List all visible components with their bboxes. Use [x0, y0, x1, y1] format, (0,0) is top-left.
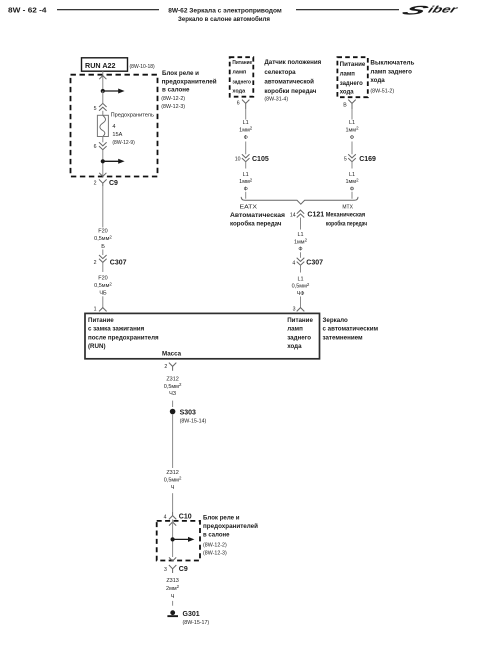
TRS feed dashed box (Питание ламп заднего хода - датчик) — [230, 57, 254, 96]
connector C307 — [94, 255, 127, 272]
svg-text:ламп: ламп — [287, 326, 303, 333]
wire to C307 — [102, 250, 104, 256]
wire into brace right — [351, 192, 353, 199]
wire to ground — [172, 601, 174, 606]
box text: backup lamp feed — [287, 317, 313, 350]
svg-text:14: 14 — [290, 213, 296, 219]
svg-text:C307: C307 — [306, 260, 323, 267]
svg-text:Блок реле и: Блок реле и — [162, 70, 199, 77]
svg-text:1: 1 — [94, 306, 97, 312]
svg-text:(8W-15-17): (8W-15-17) — [183, 620, 210, 626]
junction — [171, 537, 175, 541]
svg-text:F20: F20 — [98, 229, 107, 235]
svg-text:B: B — [343, 103, 347, 109]
wire pin5 to fuse — [102, 111, 104, 116]
merge brace — [241, 197, 358, 204]
svg-text:C105: C105 — [252, 156, 269, 163]
svg-text:(8W-15-14): (8W-15-14) — [180, 419, 207, 425]
svg-text:4: 4 — [164, 515, 167, 521]
splice S303 — [170, 409, 207, 425]
svg-text:ламп: ламп — [232, 70, 246, 76]
wire to C307 right — [300, 252, 302, 258]
label manual transmission — [326, 212, 368, 228]
svg-text:S303: S303 — [180, 409, 196, 416]
net label MTX — [342, 204, 353, 210]
wire fuse to pin 6 — [102, 137, 104, 143]
svg-text:Предохранитель: Предохранитель — [111, 113, 154, 119]
wire to mirror box pin 1 — [102, 296, 104, 307]
svg-text:Ч: Ч — [171, 594, 175, 600]
svg-text:Автоматическая: Автоматическая — [230, 212, 285, 219]
box label: mirror — [323, 317, 379, 341]
svg-text:хода: хода — [340, 90, 355, 96]
svg-text:Ч: Ч — [171, 485, 175, 491]
svg-text:селектора: селектора — [264, 69, 296, 76]
svg-text:с замка зажигания: с замка зажигания — [88, 326, 145, 333]
pin B fork below switch box — [343, 100, 355, 109]
svg-text:3: 3 — [293, 306, 296, 312]
svg-text:Зеркало в салоне автомобиля: Зеркало в салоне автомобиля — [178, 15, 270, 23]
svg-text:затемнением: затемнением — [323, 334, 363, 341]
svg-text:L1: L1 — [349, 120, 355, 126]
svg-text:C169: C169 — [359, 156, 376, 163]
svg-text:(8W-10-18): (8W-10-18) — [130, 64, 156, 70]
wire label L1 lower center — [292, 277, 310, 297]
svg-text:(8W-12-9): (8W-12-9) — [112, 140, 135, 146]
svg-text:L1: L1 — [349, 172, 355, 178]
TRS label (Датчик положения селектора) — [264, 59, 321, 103]
svg-text:F20: F20 — [98, 276, 107, 282]
branch arrow right — [103, 89, 125, 94]
net label EATX — [240, 205, 258, 211]
label automatic transmission — [230, 212, 285, 228]
pin 2 fork below mirror box — [164, 363, 176, 371]
svg-text:Питание: Питание — [287, 317, 313, 324]
arrow out of relay block lower (down) — [169, 557, 176, 561]
ground G301 — [167, 610, 209, 626]
svg-text:1мм2: 1мм2 — [294, 238, 308, 246]
svg-text:хода: хода — [370, 77, 385, 84]
svg-text:ламп заднего: ламп заднего — [370, 69, 412, 76]
svg-text:коробки передач: коробки передач — [264, 88, 316, 95]
wire through relay block lower — [172, 519, 174, 557]
wire into brace left — [245, 192, 247, 199]
svg-text:Питание: Питание — [88, 317, 114, 324]
svg-text:автоматической: автоматической — [264, 78, 314, 85]
svg-text:L1: L1 — [243, 120, 249, 126]
svg-text:2: 2 — [164, 364, 167, 370]
svg-text:хода: хода — [287, 343, 302, 350]
svg-text:0,5мм2: 0,5мм2 — [292, 282, 310, 290]
header title — [168, 8, 282, 23]
wire to S303 — [172, 401, 174, 407]
svg-text:L1: L1 — [297, 277, 303, 283]
svg-text:Ф: Ф — [350, 135, 354, 141]
svg-text:ЧФ: ЧФ — [297, 291, 305, 297]
svg-text:C307: C307 — [110, 259, 127, 266]
pin 5 — [94, 106, 97, 112]
svg-text:L1: L1 — [243, 172, 249, 178]
svg-text:Z312: Z312 — [166, 470, 179, 476]
svg-text:Ф: Ф — [244, 135, 248, 141]
wire switch to label — [351, 109, 353, 120]
header rule left — [57, 9, 159, 11]
branch arrow right — [173, 537, 195, 542]
branch arrow right — [103, 159, 125, 164]
svg-text:EATX: EATX — [240, 205, 258, 211]
relay block label — [161, 70, 216, 110]
wire to C169 — [351, 142, 353, 155]
svg-text:C9: C9 — [109, 180, 118, 187]
svg-text:Z313: Z313 — [166, 578, 179, 584]
box text: ignition feed — [88, 317, 159, 350]
svg-text:Датчик положения: Датчик положения — [264, 59, 321, 66]
svg-text:0,5мм2: 0,5мм2 — [164, 476, 182, 484]
svg-text:предохранителей: предохранителей — [162, 77, 217, 85]
wire RUN A22 to relay block — [102, 71, 104, 91]
svg-text:10: 10 — [235, 156, 241, 162]
svg-text:iber: iber — [426, 5, 460, 16]
wire label L1 left — [239, 120, 253, 141]
connector RUN A22 — [82, 58, 128, 71]
wire pin6 to junction — [102, 150, 104, 177]
svg-text:(8W-12-2): (8W-12-2) — [161, 96, 185, 102]
junction — [101, 159, 105, 163]
reference (8W-10-18) — [130, 64, 156, 70]
wire label Z312 lower — [164, 470, 182, 491]
relay block lower label — [203, 515, 258, 557]
wire to mirror box pin 3 — [300, 297, 302, 308]
backup lamp switch label — [370, 60, 414, 95]
svg-text:C121: C121 — [307, 212, 324, 219]
svg-text:заднего: заднего — [287, 334, 311, 341]
svg-text:2мм2: 2мм2 — [166, 584, 180, 592]
connector chevrons pin 5 — [99, 103, 107, 110]
wire to C105 — [245, 142, 247, 155]
svg-text:1мм2: 1мм2 — [239, 126, 253, 134]
svg-text:Масса: Масса — [162, 350, 182, 357]
svg-text:заднего: заднего — [340, 81, 363, 87]
svg-text:Механическая: Механическая — [326, 212, 366, 219]
wire S303 down — [172, 414, 174, 468]
relay block dashed box (Блок реле и предохранителей в салоне) — [71, 75, 158, 177]
svg-text:1мм2: 1мм2 — [345, 177, 359, 185]
wire label L1 center — [294, 232, 308, 253]
wire label L1 right lower — [345, 172, 359, 193]
backup lamp switch dashed box (Питание ламп заднего хода) — [337, 57, 367, 97]
svg-text:1мм2: 1мм2 — [345, 126, 359, 134]
svg-text:(8W-51-2): (8W-51-2) — [370, 89, 394, 95]
connector chevrons pin 6 — [99, 142, 107, 149]
fuse label — [111, 113, 154, 147]
svg-text:2: 2 — [94, 260, 97, 266]
svg-text:коробка передач: коробка передач — [326, 220, 368, 227]
mirror module box (Зеркало с автоматическим затемнением) — [85, 313, 320, 358]
relay block dashed box lower — [157, 521, 200, 561]
svg-text:Z312: Z312 — [166, 377, 179, 383]
svg-text:коробка передач: коробка передач — [230, 221, 282, 228]
connector C9 bottom — [164, 565, 188, 573]
connector C307 right — [292, 258, 323, 273]
svg-text:Б: Б — [101, 244, 105, 250]
fuse F4 — [97, 115, 108, 136]
svg-text:ЧЗ: ЧЗ — [169, 391, 177, 397]
svg-text:6: 6 — [237, 101, 240, 107]
svg-text:в салоне: в салоне — [162, 87, 190, 94]
header rule right — [296, 9, 399, 11]
arrow out of relay block (down) — [99, 173, 106, 177]
pin 1 fork into box — [94, 306, 107, 312]
pin 6 fork below TRS box — [237, 100, 250, 109]
wire junction to pin 5 — [102, 91, 104, 103]
svg-text:Ф: Ф — [298, 247, 302, 253]
svg-text:RUN A22: RUN A22 — [85, 61, 116, 70]
svg-text:(8W-12-3): (8W-12-3) — [161, 104, 185, 110]
connector C121 — [290, 210, 324, 229]
svg-text:в салоне: в салоне — [203, 532, 230, 539]
svg-text:с автоматическим: с автоматическим — [323, 326, 379, 333]
svg-text:4: 4 — [292, 261, 295, 267]
pin 6 — [94, 144, 97, 150]
svg-text:Блок реле и: Блок реле и — [203, 515, 240, 522]
svg-text:ламп: ламп — [340, 71, 356, 77]
svg-text:1мм2: 1мм2 — [239, 177, 253, 185]
svg-text:Зеркало: Зеркало — [323, 317, 348, 324]
svg-text:8W - 62 -4: 8W - 62 -4 — [8, 6, 47, 15]
svg-text:15А: 15А — [112, 132, 122, 138]
svg-text:Ф: Ф — [244, 186, 248, 192]
arrow into relay block lower (up) — [169, 522, 176, 526]
wire label Z312 upper — [164, 377, 182, 398]
svg-text:6: 6 — [94, 144, 97, 150]
svg-text:G301: G301 — [183, 611, 200, 618]
svg-text:5: 5 — [344, 156, 347, 162]
svg-text:Питание: Питание — [232, 60, 252, 66]
junction — [101, 89, 105, 93]
svg-text:4: 4 — [112, 124, 115, 130]
wire label Z313 — [166, 578, 180, 600]
svg-text:(8W-12-3): (8W-12-3) — [203, 550, 227, 556]
svg-text:Питание: Питание — [340, 62, 366, 68]
pin 3 fork into box — [293, 306, 305, 312]
svg-text:8W-62 Зеркала с электроприводо: 8W-62 Зеркала с электроприводом — [168, 8, 282, 15]
svg-text:(RUN): (RUN) — [88, 343, 106, 350]
wire C9 to F20 label — [102, 186, 104, 227]
svg-text:после предохранителя: после предохранителя — [88, 334, 159, 341]
svg-text:C10: C10 — [179, 514, 192, 521]
svg-text:MTX: MTX — [342, 204, 353, 210]
svg-text:предохранителей: предохранителей — [203, 522, 258, 530]
wire TRS to label — [245, 109, 247, 120]
svg-text:Ф: Ф — [350, 186, 354, 192]
svg-text:ЧБ: ЧБ — [99, 291, 107, 297]
wire label L1 left lower — [239, 172, 253, 193]
wire label L1 right — [345, 120, 359, 141]
svg-text:Выключатель: Выключатель — [370, 60, 414, 67]
wire label F20 black/white — [94, 276, 112, 297]
svg-text:заднего: заднего — [232, 80, 251, 86]
svg-text:L1: L1 — [297, 232, 303, 238]
Siber logo — [397, 3, 460, 17]
svg-text:0,5мм2: 0,5мм2 — [164, 382, 182, 390]
wire to C10 — [172, 493, 174, 512]
connector C105 — [235, 154, 269, 168]
svg-text:C9: C9 — [179, 566, 188, 573]
svg-text:2: 2 — [94, 181, 97, 187]
svg-text:хода: хода — [232, 88, 246, 94]
wire label F20 white — [94, 229, 112, 250]
connector C169 — [344, 154, 376, 168]
box text: Масса — [162, 350, 182, 357]
svg-text:0,5мм2: 0,5мм2 — [94, 234, 112, 242]
connector C9 top — [94, 179, 118, 187]
svg-text:3: 3 — [164, 567, 167, 573]
svg-text:0,5мм2: 0,5мм2 — [94, 281, 112, 289]
svg-text:(8W-31-4): (8W-31-4) — [264, 96, 288, 102]
connector C10 fork — [164, 512, 192, 521]
header page number — [8, 6, 47, 15]
arrow into relay block (up) — [99, 76, 106, 80]
svg-text:5: 5 — [94, 106, 97, 112]
svg-text:(8W-12-2): (8W-12-2) — [203, 542, 227, 548]
